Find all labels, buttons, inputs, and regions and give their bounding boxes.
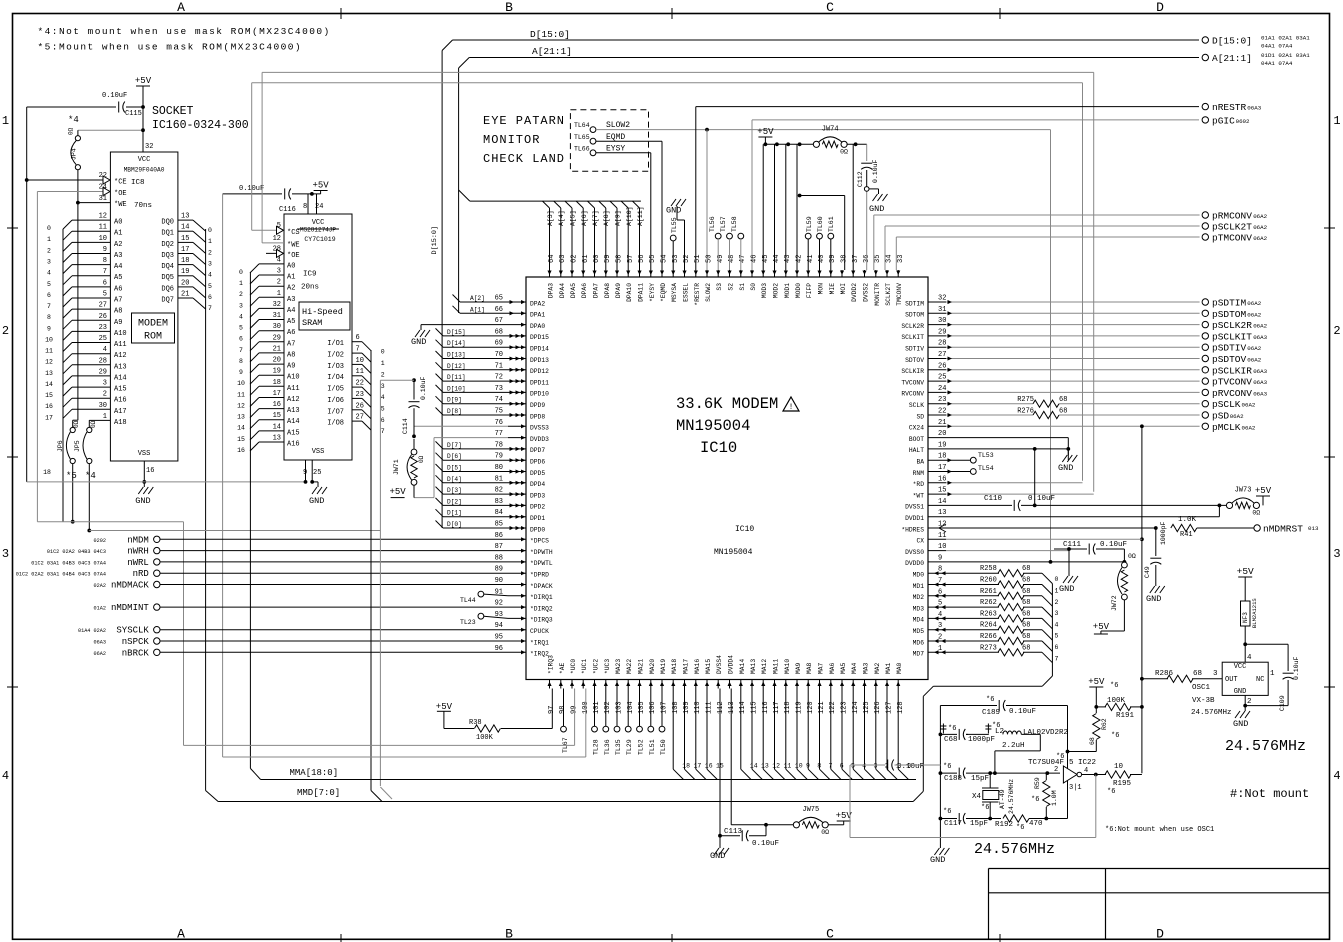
svg-text:5: 5 (938, 600, 942, 608)
bus MMA[18:0] (261, 768, 916, 780)
svg-text:DPD14: DPD14 (530, 346, 549, 353)
svg-text:32: 32 (273, 301, 281, 309)
svg-text:A3: A3 (287, 296, 295, 304)
connector nWRL (31, 558, 160, 568)
svg-text:*WT: *WT (913, 492, 925, 499)
svg-text:DPA4: DPA4 (559, 283, 566, 298)
svg-text:nSPCK: nSPCK (122, 637, 150, 647)
resistor R59 1.0M vertical (1031, 773, 1058, 818)
svg-text:D[13]: D[13] (447, 352, 466, 359)
svg-text:IC8: IC8 (131, 179, 145, 187)
svg-text:JW73: JW73 (1235, 486, 1252, 494)
svg-text:A16: A16 (114, 397, 127, 405)
svg-text:C114: C114 (402, 418, 409, 434)
svg-text:*6: *6 (1110, 682, 1118, 690)
svg-text:DPD4: DPD4 (530, 481, 545, 488)
svg-text:18: 18 (273, 379, 281, 387)
svg-text:MD4: MD4 (913, 617, 925, 624)
svg-text:18: 18 (43, 469, 51, 476)
svg-text:BLM2A121S: BLM2A121S (1251, 598, 1258, 628)
svg-text:31: 31 (273, 312, 281, 320)
connector pSCLKIT (1202, 331, 1268, 342)
svg-text:22: 22 (938, 408, 946, 416)
svg-text:20: 20 (181, 279, 189, 287)
svg-text:TL66: TL66 (574, 146, 590, 153)
wire nSPCK (160, 640, 508, 642)
jumper JW72 0ohm vertical (1101, 553, 1136, 631)
svg-text:C111: C111 (1063, 541, 1082, 549)
svg-text:MA20: MA20 (649, 659, 656, 674)
svg-text:DPA2: DPA2 (530, 300, 545, 307)
svg-text:5: 5 (1055, 633, 1059, 640)
svg-text:01A1 02A1 03A1: 01A1 02A1 03A1 (1261, 35, 1310, 42)
svg-text:14: 14 (750, 763, 758, 770)
svg-text:*DPRD: *DPRD (530, 572, 549, 579)
svg-text:65: 65 (495, 295, 503, 303)
svg-text:12: 12 (772, 763, 780, 770)
label 24.576MHz (OSC1) (1225, 738, 1306, 755)
svg-text:92: 92 (495, 600, 503, 608)
svg-text:0Ω: 0Ω (821, 829, 829, 836)
wire nMDMINT (160, 606, 508, 608)
svg-text:A7: A7 (287, 340, 295, 348)
connector pTVCONV (1202, 377, 1268, 388)
connector pSCLK2R (1202, 320, 1268, 331)
svg-text:A[21:1]: A[21:1] (532, 46, 572, 57)
svg-text:2: 2 (381, 371, 385, 378)
svg-text:A13: A13 (114, 363, 127, 371)
jumper JW74 0ohm (813, 125, 848, 155)
capacitor C117 15pF (940, 808, 1001, 828)
wire memory CS net across (252, 83, 1083, 481)
svg-text:*6: *6 (1107, 788, 1115, 796)
jumper JW71 0ohm vertical (393, 439, 425, 498)
svg-text:15pF: 15pF (971, 775, 989, 783)
wire pGIC from pin 46 (752, 120, 1199, 270)
svg-text:06A2: 06A2 (1242, 424, 1256, 431)
IC10 left pin numbers 65-96 and names (495, 295, 553, 658)
svg-text:SCLKIR: SCLKIR (901, 368, 924, 375)
svg-text:*5:Mount when use mask ROM(MX2: *5:Mount when use mask ROM(MX23C4000) (38, 42, 303, 53)
connector nRD (16, 569, 160, 579)
wire nMDM (160, 538, 508, 540)
svg-text:+5V: +5V (135, 76, 152, 86)
svg-text:7: 7 (381, 428, 385, 435)
wire pin 36 DVSS2 to C112 node (864, 187, 869, 270)
wire pSCLK2R (946, 323, 1200, 327)
svg-text:10: 10 (356, 357, 364, 365)
svg-text:S3: S3 (716, 283, 723, 291)
svg-text:A8: A8 (114, 308, 122, 316)
svg-text:12: 12 (45, 359, 53, 366)
bus D[15:0] top (431, 29, 1199, 528)
capacitor C112 0.10uF (857, 144, 879, 189)
svg-text:1.0M: 1.0M (1051, 790, 1058, 806)
ROM address wires to bus (63, 220, 110, 420)
svg-text:D[15:0]: D[15:0] (431, 226, 439, 255)
svg-text:TVCONV: TVCONV (901, 379, 924, 386)
wire DVSS1 net with C110 (946, 449, 1227, 507)
svg-text:A10: A10 (287, 374, 300, 382)
svg-text:pSDTIM: pSDTIM (1212, 298, 1247, 309)
svg-text:30: 30 (99, 402, 107, 410)
svg-text:80: 80 (495, 464, 503, 472)
svg-text:16: 16 (273, 401, 281, 409)
+5V (SRAM) (312, 181, 329, 194)
svg-text:68: 68 (495, 328, 503, 336)
svg-text:11: 11 (45, 348, 53, 355)
svg-text:68: 68 (1022, 588, 1030, 596)
svg-text:A3: A3 (114, 252, 122, 260)
svg-text:10: 10 (45, 336, 53, 343)
SRAM IO pins I/O1-I/O8 (327, 334, 385, 435)
svg-text:A18: A18 (114, 419, 127, 427)
capacitor C115 0.10uF (91, 92, 145, 118)
svg-text:C: C (826, 0, 834, 15)
svg-text:68: 68 (1022, 610, 1030, 618)
svg-text:MOD1: MOD1 (784, 283, 791, 298)
resistor R276 68 (1017, 408, 1067, 419)
svg-text:20: 20 (273, 357, 281, 365)
svg-text:59: 59 (604, 255, 612, 263)
ROM data bus vertical (206, 229, 219, 802)
svg-text:21: 21 (273, 345, 281, 353)
capacitor C111 0.10uF (1054, 541, 1127, 561)
svg-text:TL52: TL52 (638, 739, 645, 755)
svg-text:06A2: 06A2 (94, 651, 106, 657)
svg-text:16: 16 (705, 763, 713, 770)
wire CX24 pMCLK vertical (1140, 428, 1144, 773)
svg-text:13: 13 (273, 435, 281, 443)
svg-text:MN195004: MN195004 (714, 548, 753, 557)
svg-text:VX-3B: VX-3B (1192, 697, 1215, 705)
svg-text:29: 29 (938, 328, 946, 336)
svg-text:3: 3 (1333, 547, 1340, 561)
svg-text:MA16: MA16 (694, 659, 701, 674)
wire JP4 trunk down (73, 203, 78, 420)
svg-text:A1: A1 (287, 274, 295, 282)
svg-text:A[11]: A[11] (637, 206, 644, 226)
svg-text:3: 3 (239, 302, 243, 309)
svg-text:GND: GND (710, 851, 725, 861)
svg-text:68: 68 (1022, 577, 1030, 585)
svg-text:IC9: IC9 (303, 271, 317, 279)
+5V at JW75 (828, 811, 852, 825)
svg-text:DVSS0: DVSS0 (905, 549, 924, 556)
svg-text:CHECK LAND: CHECK LAND (483, 152, 565, 166)
svg-text:4: 4 (47, 270, 51, 277)
test land TL55 (670, 217, 678, 270)
svg-text:+5V: +5V (436, 702, 453, 712)
wire +5V rail to JW74 (764, 142, 814, 146)
svg-text:35: 35 (874, 255, 882, 263)
connector nMDMACK (94, 581, 160, 591)
svg-text:A[6]: A[6] (581, 210, 588, 226)
svg-text:*4: *4 (85, 471, 96, 481)
svg-text:11: 11 (237, 391, 245, 398)
svg-text:0602: 0602 (1236, 118, 1250, 125)
wire C116 left trunk (222, 194, 224, 757)
capacitor C113 0.10uF (720, 823, 779, 848)
svg-text:MONITR: MONITR (874, 283, 881, 306)
svg-text:A4: A4 (287, 307, 295, 315)
svg-text:90: 90 (495, 577, 503, 585)
svg-text:MD7: MD7 (913, 651, 925, 658)
svg-text:23: 23 (356, 391, 364, 399)
SRAM IO bus vertical (371, 350, 382, 802)
svg-text:0: 0 (208, 227, 212, 234)
test land TL51 (648, 689, 656, 756)
svg-text:7: 7 (1055, 655, 1059, 662)
svg-text:JP4: JP4 (71, 148, 78, 160)
svg-text:63: 63 (559, 255, 567, 263)
svg-text:70: 70 (495, 351, 503, 359)
resistor R264 68 (934, 622, 1059, 640)
ground interconnect wire (27, 180, 306, 482)
svg-text:A[8]: A[8] (603, 210, 610, 226)
svg-text:SDTIV: SDTIV (905, 346, 924, 353)
svg-text:A8: A8 (287, 351, 295, 359)
svg-text:MOD2: MOD2 (773, 283, 780, 298)
svg-text:01C2 02A2 03A1 04B4 04C3 07A4: 01C2 02A2 03A1 04B4 04C3 07A4 (16, 572, 106, 578)
svg-text:0.10uF: 0.10uF (1028, 495, 1055, 503)
svg-text:13: 13 (181, 213, 189, 221)
svg-text:32: 32 (938, 295, 946, 303)
ground OSC1 (1233, 695, 1250, 729)
svg-text:06A2: 06A2 (1242, 402, 1256, 409)
svg-text:SLOW2: SLOW2 (606, 121, 630, 130)
+5V at NF3 (1237, 566, 1254, 580)
svg-text:18: 18 (181, 257, 189, 265)
svg-text:R192: R192 (995, 821, 1013, 829)
svg-text:61: 61 (582, 255, 590, 263)
wire ROM *OE trunk (37, 192, 380, 746)
svg-text:*IRQ3: *IRQ3 (548, 655, 555, 674)
svg-text:D[3]: D[3] (447, 487, 462, 494)
svg-text:C109: C109 (1279, 695, 1286, 711)
wire pRMCONV (874, 214, 1200, 216)
connector nWRH (47, 547, 160, 557)
svg-text:18: 18 (682, 763, 690, 770)
svg-text:68: 68 (1059, 408, 1067, 416)
svg-text:SCLK2T: SCLK2T (885, 283, 892, 306)
wire SLOW2 net (596, 128, 1051, 561)
svg-text:A11: A11 (114, 341, 127, 349)
svg-text:A[1]: A[1] (470, 306, 485, 313)
svg-text:CX: CX (916, 538, 924, 545)
svg-text:DQ1: DQ1 (161, 230, 174, 238)
svg-text:DPA11: DPA11 (638, 283, 645, 302)
svg-text:D[7]: D[7] (447, 442, 462, 449)
svg-text:6: 6 (208, 294, 212, 301)
ferrite bead NF3 BLM2A121S (1241, 580, 1259, 662)
svg-text:9: 9 (938, 554, 942, 562)
svg-text:96: 96 (495, 645, 503, 653)
svg-text:*4: *4 (68, 115, 79, 125)
svg-text:3: 3 (103, 380, 107, 388)
svg-text:72: 72 (495, 374, 503, 382)
svg-text:3: 3 (938, 622, 942, 630)
svg-text:*6: *6 (1111, 732, 1119, 740)
svg-text:*RD: *RD (913, 481, 925, 488)
svg-text:113: 113 (728, 701, 736, 714)
svg-text:06A2: 06A2 (1247, 300, 1261, 307)
resistor R191 100K (1096, 697, 1144, 720)
wires top pins 45-42 to +5V rail (763, 144, 797, 270)
connector pSCLK (1202, 399, 1256, 410)
wire pRVCONV (946, 390, 1200, 394)
ROM address bus vertical (62, 229, 64, 522)
SRAM address bus numbers (237, 269, 245, 454)
svg-text:0: 0 (47, 225, 51, 232)
svg-text:FIFP: FIFP (806, 283, 813, 298)
svg-text:MOD0: MOD0 (795, 283, 802, 298)
resistor R260 68 (934, 577, 1059, 595)
svg-text:*CS: *CS (287, 229, 300, 237)
svg-text:A0: A0 (114, 219, 122, 227)
svg-text:D: D (1156, 927, 1164, 942)
svg-text:MS281274JP: MS281274JP (300, 227, 336, 234)
svg-text:MN195004: MN195004 (676, 417, 750, 435)
svg-text:67: 67 (495, 317, 503, 325)
wire C114 top to trunk (380, 380, 414, 799)
bus stubs D[7]-D[0] to pins 78-85 (436, 441, 521, 530)
svg-text:SDTOV: SDTOV (905, 357, 924, 364)
svg-text:DPD2: DPD2 (530, 504, 545, 511)
svg-text:SOCKET: SOCKET (152, 105, 194, 118)
svg-text:nMDMRST: nMDMRST (1263, 524, 1303, 535)
svg-text:A10: A10 (114, 330, 127, 338)
wire pSCLK (946, 402, 1200, 406)
svg-text:15: 15 (45, 392, 53, 399)
svg-text:+5V: +5V (312, 181, 329, 191)
svg-text:TL51: TL51 (649, 739, 656, 755)
svg-text:#:Not mount: #:Not mount (1230, 787, 1309, 801)
svg-text:27: 27 (99, 302, 107, 310)
svg-text:I/O4: I/O4 (327, 374, 344, 382)
svg-text:EYSY: EYSY (606, 145, 625, 154)
svg-text:EQMD: EQMD (606, 133, 625, 142)
connector pSDTIV (1202, 343, 1262, 354)
svg-text:A[2]: A[2] (470, 295, 485, 302)
test land TL36 (603, 689, 611, 756)
svg-text:4: 4 (277, 256, 281, 264)
svg-text:DPA1: DPA1 (530, 312, 545, 319)
svg-text:13: 13 (45, 370, 53, 377)
wire DVDD4 to JW75 (731, 689, 793, 825)
svg-text:DPD15: DPD15 (530, 334, 549, 341)
svg-text:MA7: MA7 (818, 662, 825, 674)
svg-text:A5: A5 (287, 318, 295, 326)
svg-text:68: 68 (1022, 644, 1030, 652)
capacitor C116 0.10uF (223, 185, 321, 214)
svg-text:8: 8 (303, 203, 307, 211)
connector pRMCONV (1202, 211, 1268, 222)
wire pin 37 DVDD2 to rail (852, 144, 854, 270)
+5V at JW72 (1093, 622, 1110, 634)
svg-text:SDTOM: SDTOM (905, 312, 924, 319)
svg-text:5: 5 (1069, 759, 1074, 767)
svg-text:A16: A16 (287, 441, 300, 449)
svg-text:I/O5: I/O5 (327, 386, 344, 394)
wire pSDTIM (946, 300, 1200, 304)
svg-text:1000pF: 1000pF (968, 736, 995, 744)
svg-text:DPD1: DPD1 (530, 515, 545, 522)
svg-text:5: 5 (103, 291, 107, 299)
svg-text:pMCLK: pMCLK (1212, 422, 1241, 433)
svg-text:0.10uF: 0.10uF (102, 92, 127, 100)
svg-text:GND: GND (930, 855, 945, 865)
svg-text:1: 1 (381, 360, 385, 367)
svg-text:CPUCK: CPUCK (530, 628, 549, 635)
wire R38 to pin 97 (551, 689, 553, 729)
wire DVSS3 pin 76 to C114 (412, 426, 508, 438)
test land TL35 (614, 689, 622, 756)
svg-text:A12: A12 (287, 396, 300, 404)
svg-text:2.2uH: 2.2uH (1002, 742, 1025, 750)
wire inverter output loop (850, 775, 1096, 838)
svg-text:I/O8: I/O8 (327, 420, 344, 428)
svg-text:*UC1: *UC1 (581, 659, 588, 674)
connector D[15:0] out (1202, 35, 1310, 50)
svg-text:01D1 02A1 03A1: 01D1 02A1 03A1 (1261, 52, 1310, 59)
svg-text:!: ! (789, 403, 794, 412)
svg-text:3: 3 (208, 261, 212, 268)
SRAM address pins A0-A16 (250, 256, 300, 451)
svg-text:*OE: *OE (287, 252, 300, 260)
svg-text:14: 14 (237, 425, 245, 432)
svg-text:+5V: +5V (1255, 486, 1272, 496)
svg-text:CX24: CX24 (909, 425, 924, 432)
svg-text:*DPWTL: *DPWTL (530, 560, 553, 567)
svg-text:DPD10: DPD10 (530, 391, 549, 398)
svg-text:20: 20 (938, 430, 946, 438)
svg-text:*6: *6 (948, 725, 956, 733)
svg-text:1: 1 (277, 290, 281, 298)
svg-text:31: 31 (938, 306, 946, 314)
svg-text:06A2: 06A2 (1253, 213, 1267, 220)
svg-text:10: 10 (237, 380, 245, 387)
MD0-MD7 series resistors 68 (0, 0, 1, 1)
svg-text:LAL02VD2R2: LAL02VD2R2 (1023, 729, 1068, 737)
svg-text:I/O2: I/O2 (327, 352, 344, 360)
svg-text:HALT: HALT (909, 447, 924, 454)
svg-text:15: 15 (181, 235, 189, 243)
svg-text:JW75: JW75 (802, 806, 819, 814)
wire pTMCONV (896, 236, 1199, 238)
svg-text:C113: C113 (724, 828, 743, 836)
svg-text:470: 470 (1029, 820, 1043, 828)
svg-text:DPA7: DPA7 (593, 283, 600, 298)
svg-text:10: 10 (99, 235, 107, 243)
svg-text:TL54: TL54 (978, 465, 994, 472)
svg-text:*WE: *WE (114, 201, 127, 209)
svg-text:D[14]: D[14] (447, 340, 466, 347)
svg-text:1: 1 (47, 236, 51, 243)
svg-text:TL23: TL23 (460, 619, 476, 626)
svg-text:57: 57 (627, 255, 635, 263)
svg-text:23: 23 (938, 396, 946, 404)
svg-text:A17: A17 (114, 408, 127, 416)
svg-text:D[15:0]: D[15:0] (1212, 36, 1252, 47)
svg-text:4: 4 (938, 611, 942, 619)
test land TL29 (625, 689, 633, 756)
svg-text:0.10uF: 0.10uF (1009, 708, 1036, 716)
svg-text:MD1: MD1 (913, 583, 925, 590)
svg-text:pTVCONV: pTVCONV (1212, 377, 1252, 388)
oscillator OSC1 VX-3B box (1191, 654, 1275, 717)
svg-text:SYSCLK: SYSCLK (116, 626, 149, 636)
